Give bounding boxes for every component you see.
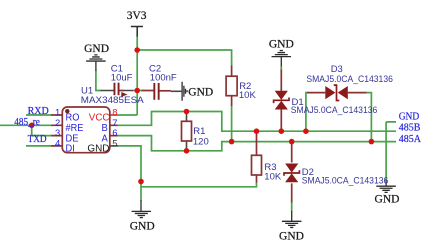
svg-text:DI: DI [66,144,75,155]
svg-text:10K: 10K [239,90,257,101]
svg-text:GND: GND [84,43,109,55]
svg-text:120: 120 [193,136,209,147]
svg-text:SMAJ5.0CA_C143136: SMAJ5.0CA_C143136 [306,74,393,85]
svg-text:GND: GND [375,193,400,205]
svg-text:485A: 485A [399,134,422,145]
svg-text:GND: GND [87,144,109,155]
svg-text:MAX3485ESA: MAX3485ESA [81,95,145,106]
svg-text:GND: GND [188,87,213,99]
svg-text:10K: 10K [264,171,282,182]
svg-text:4: 4 [55,139,60,150]
svg-text:5: 5 [112,139,117,150]
svg-text:SMAJ5.0CA_C143136: SMAJ5.0CA_C143136 [291,105,378,116]
svg-text:10uF: 10uF [111,73,133,84]
svg-text:TXD: TXD [28,134,47,145]
svg-text:GND: GND [130,220,155,232]
svg-text:100nF: 100nF [150,73,177,84]
svg-text:GND: GND [279,230,304,242]
svg-text:RXD: RXD [28,106,49,117]
svg-text:3V3: 3V3 [127,10,147,22]
svg-text:GND: GND [399,112,420,123]
svg-text:SMAJ5.0CA_C143136: SMAJ5.0CA_C143136 [302,175,389,186]
svg-text:485B: 485B [399,122,421,133]
svg-text:GND: GND [269,39,294,51]
svg-text:485_re: 485_re [14,117,40,128]
